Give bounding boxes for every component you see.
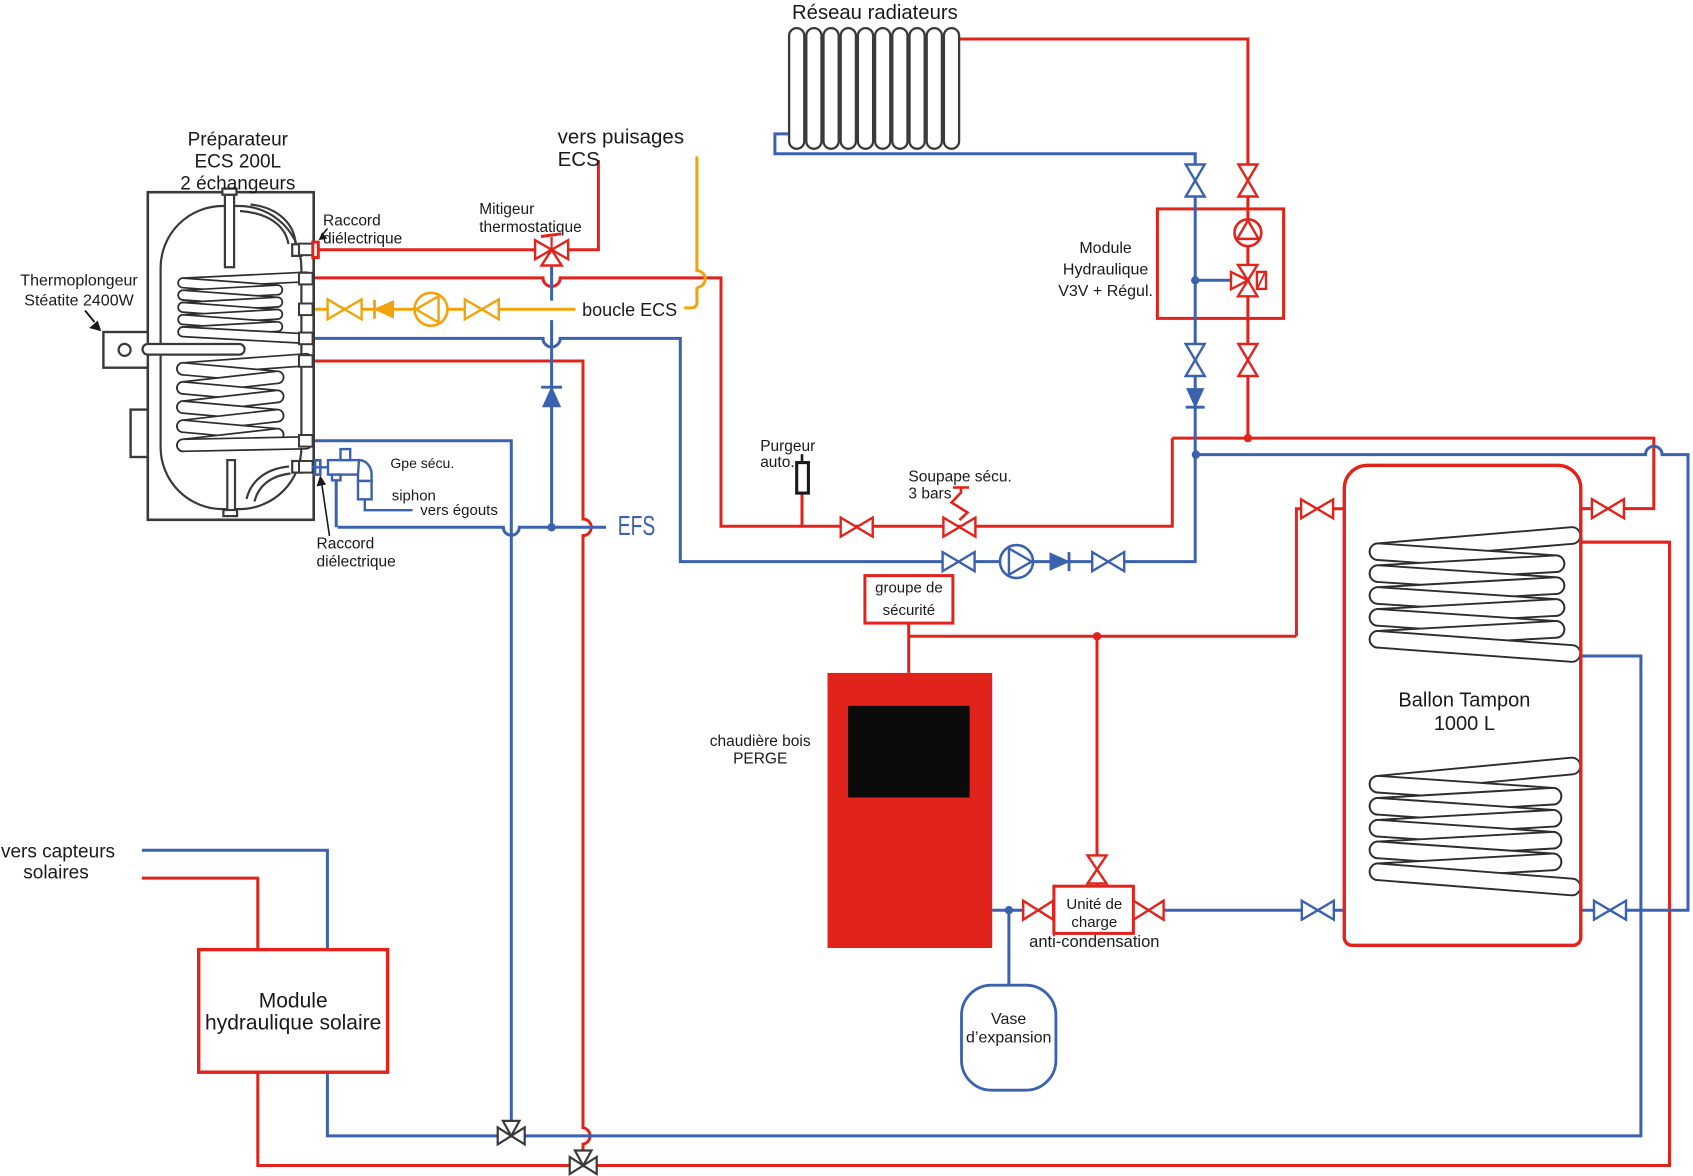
- svg-text:Module: Module: [1079, 240, 1132, 257]
- svg-text:PERGE: PERGE: [733, 751, 787, 768]
- svg-text:EFS: EFS: [618, 510, 656, 541]
- svg-text:vers égouts: vers égouts: [420, 502, 498, 519]
- svg-text:Soupape sécu.: Soupape sécu.: [908, 469, 1011, 486]
- svg-text:vers capteurs: vers capteurs: [1, 842, 115, 863]
- svg-text:Unité de: Unité de: [1066, 896, 1122, 913]
- svg-text:groupe de: groupe de: [875, 579, 943, 596]
- svg-text:vers puisages: vers puisages: [558, 126, 684, 149]
- svg-text:solaires: solaires: [23, 863, 88, 884]
- svg-text:anti-condensation: anti-condensation: [1029, 933, 1159, 951]
- svg-text:charge: charge: [1071, 914, 1117, 931]
- svg-text:auto.: auto.: [760, 454, 794, 471]
- svg-text:diélectrique: diélectrique: [317, 554, 396, 571]
- svg-text:hydraulique solaire: hydraulique solaire: [205, 1012, 381, 1035]
- svg-text:Réseau radiateurs: Réseau radiateurs: [792, 2, 958, 24]
- svg-text:2 échangeurs: 2 échangeurs: [180, 173, 295, 194]
- svg-text:ECS 200L: ECS 200L: [194, 151, 281, 172]
- svg-text:Module: Module: [259, 990, 328, 1013]
- svg-text:Ballon Tampon: Ballon Tampon: [1398, 690, 1530, 712]
- svg-text:Raccord: Raccord: [323, 213, 381, 230]
- svg-text:Vase: Vase: [991, 1011, 1026, 1028]
- svg-text:thermostatique: thermostatique: [479, 219, 582, 236]
- svg-text:ECS: ECS: [558, 148, 600, 171]
- svg-text:V3V + Régul.: V3V + Régul.: [1058, 283, 1153, 300]
- svg-text:Mitigeur: Mitigeur: [479, 201, 534, 218]
- svg-text:3 bars: 3 bars: [908, 486, 951, 503]
- svg-text:chaudière bois: chaudière bois: [710, 733, 811, 750]
- svg-text:diélectrique: diélectrique: [323, 231, 402, 248]
- svg-text:Raccord: Raccord: [317, 536, 375, 553]
- svg-text:Purgeur: Purgeur: [760, 438, 815, 455]
- svg-text:boucle ECS: boucle ECS: [582, 300, 677, 320]
- svg-text:Hydraulique: Hydraulique: [1063, 262, 1148, 279]
- svg-text:sécurité: sécurité: [883, 602, 936, 619]
- svg-text:Stéatite 2400W: Stéatite 2400W: [24, 293, 134, 310]
- svg-text:Thermoplongeur: Thermoplongeur: [20, 273, 138, 290]
- svg-text:d’expansion: d’expansion: [966, 1029, 1051, 1046]
- svg-text:Préparateur: Préparateur: [188, 129, 289, 150]
- svg-text:1000 L: 1000 L: [1434, 713, 1495, 735]
- svg-text:Gpe sécu.: Gpe sécu.: [390, 455, 454, 471]
